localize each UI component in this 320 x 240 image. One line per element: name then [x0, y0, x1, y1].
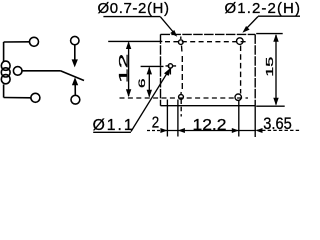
wire coil bottom — [4, 97, 31, 99]
dimension 6 line — [136, 67, 152, 98]
label hole dia 0.7 — [98, 0, 178, 37]
dimension 15 line — [265, 34, 279, 106]
hole H5 mid-left — [168, 64, 172, 68]
label hole dia 1.2 — [225, 0, 302, 33]
relay body outline rectangle — [161, 34, 256, 105]
svg-text:12: 12 — [117, 54, 130, 83]
label hole dia 1.1 — [93, 68, 171, 134]
bottom dimension line — [147, 128, 300, 133]
svg-text:2: 2 — [152, 115, 159, 132]
centerline left hole column — [181, 37, 183, 117]
hole H1 top-left — [179, 40, 184, 45]
common pin terminal — [13, 67, 22, 76]
NC contact stem — [74, 45, 76, 61]
svg-text:15: 15 — [265, 57, 276, 77]
centerline bottom hole row — [120, 97, 249, 99]
svg-text:6: 6 — [136, 78, 147, 88]
svg-text:Ø1.1: Ø1.1 — [93, 117, 135, 134]
hole H4 bottom-right — [235, 94, 241, 100]
centerline top hole row — [108, 40, 246, 42]
extension line bottom a — [166, 100, 168, 137]
coil pin 1 terminal — [30, 37, 39, 46]
wire common to blade — [22, 70, 60, 72]
svg-text:Ø0.7-2(H): Ø0.7-2(H) — [98, 0, 170, 17]
svg-text:12.2: 12.2 — [193, 117, 227, 134]
hole H3 top-right — [237, 38, 244, 45]
NO contact stem — [74, 85, 76, 96]
hole H2 bottom-left — [179, 95, 184, 100]
svg-text:Ø1.2-2(H): Ø1.2-2(H) — [225, 0, 301, 17]
wire coil top — [4, 41, 30, 43]
dimension 12 line — [117, 41, 131, 97]
svg-text:3.65: 3.65 — [263, 115, 292, 133]
switch blade — [60, 71, 84, 81]
centerline H5 column stub — [169, 69, 171, 75]
extension line bottom b — [177, 100, 179, 137]
NC pin terminal — [71, 36, 79, 44]
NO arrowhead up — [72, 77, 78, 85]
extension line bottom c — [238, 101, 240, 137]
dimension 15 extension lines — [255, 34, 285, 137]
centerline right hole column — [240, 46, 242, 94]
relay coil L1 — [1, 42, 10, 98]
NC arrowhead down — [72, 59, 78, 67]
coil pin 2 terminal — [31, 93, 40, 102]
centerline H5 row — [141, 65, 177, 68]
NO pin terminal — [71, 95, 80, 104]
